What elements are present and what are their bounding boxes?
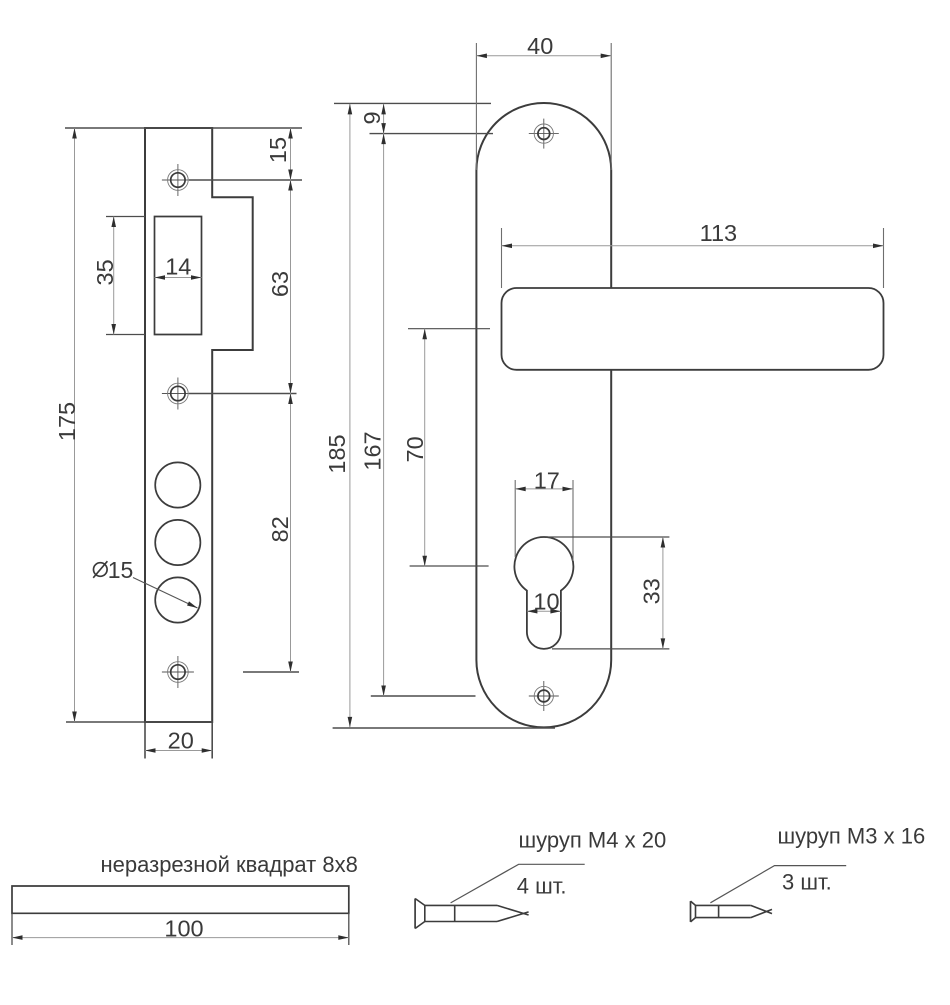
svg-text:15: 15	[108, 557, 134, 583]
svg-text:4 шт.: 4 шт.	[517, 874, 567, 899]
svg-text:63: 63	[267, 271, 293, 297]
svg-text:185: 185	[324, 434, 350, 473]
svg-text:70: 70	[402, 436, 428, 462]
svg-text:175: 175	[54, 402, 80, 441]
svg-text:9: 9	[359, 111, 385, 124]
svg-text:17: 17	[534, 467, 560, 493]
svg-text:шуруп М4 x 20: шуруп М4 x 20	[519, 828, 667, 853]
svg-text:82: 82	[267, 516, 293, 542]
svg-text:33: 33	[639, 578, 665, 604]
svg-text:3 шт.: 3 шт.	[782, 870, 832, 895]
svg-text:20: 20	[168, 728, 194, 754]
svg-text:14: 14	[165, 254, 191, 280]
svg-text:шуруп М3 x 16: шуруп М3 x 16	[778, 824, 926, 849]
svg-text:10: 10	[533, 589, 559, 615]
svg-text:неразрезной квадрат 8x8: неразрезной квадрат 8x8	[101, 852, 358, 877]
svg-text:113: 113	[700, 220, 737, 246]
svg-text:15: 15	[265, 137, 291, 163]
svg-text:40: 40	[527, 33, 553, 59]
svg-text:35: 35	[92, 259, 118, 285]
svg-text:100: 100	[164, 916, 203, 942]
svg-text:167: 167	[360, 431, 386, 470]
